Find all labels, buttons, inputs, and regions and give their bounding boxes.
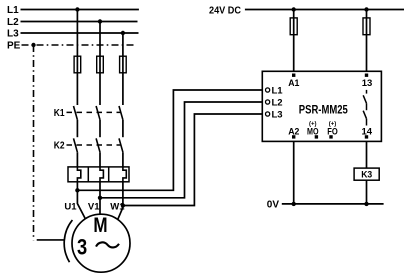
svg-text:L1: L1: [7, 5, 19, 16]
svg-text:V1: V1: [88, 202, 100, 213]
wire 14 to K3: [366, 141, 368, 168]
wire PE lead to motor frame: [37, 239, 64, 241]
terminal circle L3: [266, 112, 270, 116]
fuse F1: [74, 56, 81, 73]
svg-text:L1: L1: [272, 85, 284, 96]
contactor K2 mechanical link (dashed): [67, 144, 122, 146]
terminal square FO: [329, 135, 332, 138]
wire A2 to 0V: [293, 141, 295, 204]
wire 24V to A1: [293, 10, 295, 75]
wire phase 2 (overload to motor V1): [99, 182, 101, 215]
wire phase 3 vertical (L3 to K1): [122, 33, 124, 105]
svg-text:0V: 0V: [267, 199, 280, 210]
wire L3 bus: [21, 32, 139, 34]
motor AC tilde: [96, 242, 119, 247]
wire phase 2 (K2 to overload): [99, 152, 101, 167]
overload relay divider 1: [87, 167, 89, 182]
junction node tap V1: [98, 196, 102, 200]
safety contact 13-14 second contact: [363, 111, 366, 119]
contactor K2 pole 3 contact: [119, 138, 123, 152]
wire phase 3 (overload to motor W1): [118, 182, 123, 220]
wire tap U1 to PSR terminal L1: [77, 90, 265, 190]
svg-text:U1: U1: [64, 202, 77, 213]
fuse F3: [120, 56, 127, 73]
wire tap W1 to PSR terminal L3: [123, 114, 266, 206]
wire 24V DC bus: [245, 9, 404, 11]
wire L1 bus: [21, 9, 139, 11]
fuse F2: [97, 56, 104, 73]
terminal square A1: [292, 74, 295, 77]
junction dot 24V to A1: [292, 7, 296, 11]
safety relay U1 PSR-MM25 body: [262, 71, 381, 141]
junction dot PE tap: [31, 43, 35, 47]
safety contact mid lead: [366, 103, 368, 110]
motor PE frame arc: [64, 220, 72, 262]
wire phase 3 (K2 to overload): [122, 152, 124, 167]
overload relay heater element phase 2: [100, 167, 103, 182]
overload relay heater element phase 3: [123, 167, 126, 182]
safety contact 13-14 upper lead: [366, 90, 368, 94]
wire L2 bus: [21, 21, 138, 23]
wire PE drop (dash-dot): [33, 45, 35, 240]
fuse F6: [363, 18, 370, 35]
junction node tap W1: [121, 203, 125, 207]
motor M1 body: [72, 214, 130, 272]
svg-text:3: 3: [77, 234, 87, 259]
wire phase 2 vertical (L2 to K1): [99, 22, 101, 106]
svg-text:K2: K2: [54, 141, 65, 152]
svg-text:L3: L3: [272, 109, 283, 120]
svg-text:L2: L2: [7, 17, 19, 28]
safety contact lower lead: [366, 119, 368, 126]
svg-text:K1: K1: [54, 108, 65, 119]
safety contact 13-14 first contact: [363, 95, 366, 103]
wire K3 to 0V: [366, 180, 368, 204]
junction dot L2 tap: [98, 19, 102, 23]
wire phase 3 (K1 to K2): [122, 120, 124, 137]
junction dot L3 tap: [121, 31, 125, 35]
wire phase 1 (K1 to K2): [76, 120, 78, 137]
wire 0V bus: [282, 203, 384, 205]
svg-text:K3: K3: [361, 170, 372, 180]
terminal square MO: [315, 135, 318, 138]
fuse F5: [290, 18, 297, 35]
contactor K1 mechanical link (dashed): [67, 111, 122, 113]
contactor K2 pole 1 contact: [74, 138, 78, 152]
svg-text:PSR-MM25: PSR-MM25: [299, 104, 348, 116]
overload relay heater element phase 1: [77, 167, 80, 182]
contactor K1 pole 1 contact: [74, 106, 78, 120]
junction dot 24V to 13: [364, 7, 368, 11]
svg-text:A1: A1: [288, 78, 300, 89]
wire phase 2 (K1 to K2): [99, 120, 101, 137]
wire PE bus (dash-dot): [22, 44, 135, 46]
svg-text:PE: PE: [7, 41, 21, 52]
wire phase 1 (K2 to overload): [76, 152, 78, 167]
svg-text:L2: L2: [272, 97, 283, 108]
junction dot L1 tap: [75, 7, 79, 11]
wire phase 1 (overload to motor U1): [77, 182, 85, 219]
svg-text:M: M: [93, 214, 107, 237]
wire tap V1 to PSR terminal L2: [100, 102, 266, 198]
terminal square 13: [365, 74, 368, 77]
junction dot K3 on 0V: [364, 202, 368, 206]
terminal square A2: [292, 135, 295, 138]
terminal circle L1: [266, 88, 270, 92]
contactor K1 pole 2 contact: [96, 106, 100, 120]
svg-text:L3: L3: [7, 29, 19, 40]
wire 24V to 13: [366, 10, 368, 75]
junction node tap U1: [75, 188, 79, 192]
svg-text:W1: W1: [110, 202, 125, 213]
terminal circle L2: [266, 100, 270, 104]
contactor K1 pole 3 contact: [119, 106, 123, 120]
relay coil K3 body: [354, 168, 379, 180]
terminal square 14: [365, 135, 368, 138]
contactor K2 pole 2 contact: [96, 138, 100, 152]
overload relay divider 2: [108, 167, 110, 182]
junction dot A2 on 0V: [292, 202, 296, 206]
overload relay F4 body: [68, 167, 129, 182]
wire phase 1 vertical (L1 to K1): [76, 10, 78, 106]
svg-text:13: 13: [362, 78, 373, 89]
svg-text:24V DC: 24V DC: [209, 6, 241, 17]
